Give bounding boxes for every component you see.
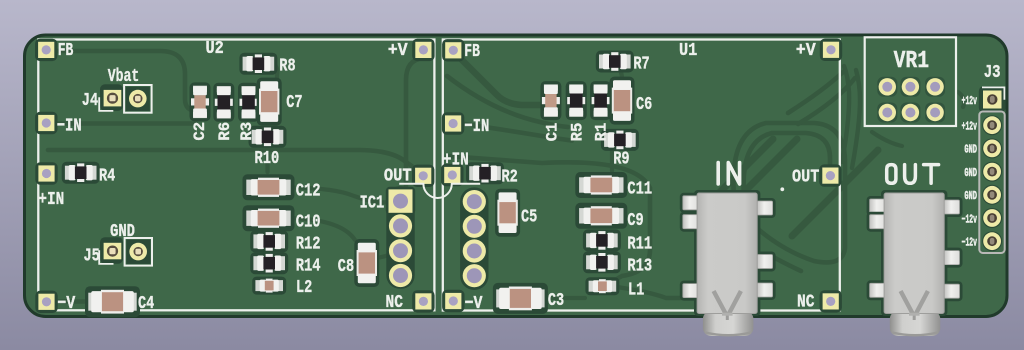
resistor R5 <box>566 81 587 120</box>
svg-text:OUT: OUT <box>792 166 819 188</box>
svg-text:GND: GND <box>964 166 977 180</box>
IC2 pad column U1 <box>460 187 488 290</box>
svg-text:C8: C8 <box>338 255 354 277</box>
svg-text:U2: U2 <box>206 37 224 59</box>
wire FB-U2 to C2 <box>54 51 197 111</box>
pad FB U2 <box>35 39 57 61</box>
svg-text:R6: R6 <box>216 122 234 141</box>
svg-text:C1: C1 <box>543 123 561 142</box>
resistor R11 <box>583 229 621 251</box>
connector J4 <box>100 84 150 111</box>
pad -IN U2 <box>35 112 57 134</box>
svg-text:+V: +V <box>796 39 817 61</box>
wire C10 to C8 <box>292 218 355 240</box>
wire R8 to C7 <box>270 64 277 83</box>
capacitor C1 <box>540 81 561 120</box>
resistor R6 <box>213 83 234 122</box>
wire diagonal up to VR1 A <box>788 72 843 113</box>
capacitor C9 <box>575 203 627 229</box>
wire +V-U2 down to IC1 <box>406 58 423 186</box>
svg-text:VR1: VR1 <box>894 48 930 75</box>
wire left of VR1 B <box>852 70 860 168</box>
J4 pin1 bracket <box>99 97 113 111</box>
pad -IN U1 <box>442 112 464 134</box>
svg-text:−IN: −IN <box>464 115 489 137</box>
svg-text:J5: J5 <box>84 244 100 266</box>
svg-text:−12v: −12v <box>962 212 977 226</box>
svg-text:C4: C4 <box>138 292 154 314</box>
capacitor C11 <box>575 172 627 198</box>
svg-text:GND: GND <box>110 220 135 242</box>
svg-text:Vbat: Vbat <box>108 65 140 87</box>
pad -V U1 <box>442 290 464 312</box>
svg-text:NC: NC <box>386 291 404 313</box>
wire under IN jack from L1 <box>617 287 700 298</box>
svg-text:L2: L2 <box>296 276 312 298</box>
pad NC U1 <box>820 290 842 312</box>
svg-text:+12v: +12v <box>962 120 977 134</box>
svg-text:L1: L1 <box>628 278 644 300</box>
svg-text:U1: U1 <box>679 39 697 61</box>
resistor R3 <box>238 83 259 122</box>
svg-text:R13: R13 <box>627 255 652 277</box>
J5 pad2 silkscreen box <box>125 238 152 266</box>
wire below VR1 <box>872 132 902 146</box>
connector J3 <box>979 86 1006 253</box>
svg-text:C2: C2 <box>191 122 209 141</box>
svg-text:R8: R8 <box>279 54 295 76</box>
wire +IN-U2 long run to OUT pad <box>48 150 423 176</box>
wire VR1 to J3 <box>958 92 964 107</box>
resistor R8 <box>239 53 277 75</box>
inductor L1 <box>585 277 619 295</box>
svg-text:IC1: IC1 <box>360 192 385 214</box>
svg-text:C5: C5 <box>521 206 537 228</box>
wire stub from IN jack right pin <box>775 258 801 271</box>
wire R9 to C11 <box>610 148 614 171</box>
svg-text:R3: R3 <box>238 122 256 141</box>
capacitor C4 <box>85 286 140 317</box>
connector J5 <box>100 237 150 264</box>
wire -IN-U1 <box>462 124 572 141</box>
capacitor C5 <box>495 189 520 237</box>
capacitor C2 <box>190 82 211 121</box>
IC1 pad column U2 <box>386 186 415 289</box>
label IN big <box>718 163 739 184</box>
svg-text:C3: C3 <box>548 289 564 311</box>
resistor R14 <box>250 252 288 274</box>
svg-text:R10: R10 <box>255 147 280 169</box>
capacitor C8 <box>354 239 379 287</box>
svg-text:C12: C12 <box>296 180 321 202</box>
svg-text:R4: R4 <box>99 165 115 187</box>
PCB board body <box>25 35 1008 317</box>
pad +V U2 <box>412 39 434 61</box>
pad OUT U1 <box>819 164 841 186</box>
potentiometer VR1 pads <box>877 77 945 123</box>
label OUT big <box>887 165 939 184</box>
svg-text:J3: J3 <box>984 61 1001 83</box>
silkscreen semicircle jumper mark between modules <box>399 184 480 198</box>
svg-text:OUT: OUT <box>384 165 412 187</box>
resistor R13 <box>583 251 621 273</box>
wire wide diagonal B behind IN <box>716 139 773 196</box>
pad -V U2 <box>35 291 57 313</box>
pad +V U1 <box>820 39 842 61</box>
resistor R7 <box>596 51 634 73</box>
wire -V to C4 <box>50 299 92 303</box>
svg-text:+12v: +12v <box>962 94 977 108</box>
wire wide diagonal A behind IN <box>740 139 797 196</box>
svg-text:+IN: +IN <box>443 149 469 171</box>
wire arc to R5 R1 <box>447 76 568 127</box>
svg-text:−12v: −12v <box>962 236 977 250</box>
svg-text:GND: GND <box>964 143 977 157</box>
pad +IN U2 <box>35 162 57 184</box>
audio jack OUT (J2) <box>867 190 963 336</box>
svg-text:R11: R11 <box>627 233 652 255</box>
wire C8 to IC1 pads <box>376 251 396 258</box>
pad OUT U2 <box>412 165 434 187</box>
capacitor C6 <box>610 77 635 125</box>
resistor R2 <box>466 162 504 184</box>
svg-text:R1: R1 <box>593 123 611 142</box>
wire R10 to C12 <box>265 145 269 172</box>
resistor R9 <box>601 129 639 151</box>
inductor L2 <box>252 277 286 295</box>
wire C3 to L1 <box>545 296 585 300</box>
svg-text:R12: R12 <box>296 233 321 255</box>
svg-text:R14: R14 <box>296 255 321 277</box>
capacitor C12 <box>243 174 295 200</box>
wire -IN-U2 to C2 <box>54 121 196 126</box>
svg-text:−V: −V <box>465 292 484 314</box>
wire R7 to C6 <box>614 67 622 79</box>
svg-text:FB: FB <box>464 40 480 62</box>
module U1 silkscreen outline <box>443 40 840 311</box>
capacitor C7 <box>257 78 282 126</box>
resistor R4 <box>62 162 100 184</box>
wire loop around IN jack outer <box>733 123 845 262</box>
svg-text:R2: R2 <box>502 166 518 188</box>
J4 pad2 silkscreen box <box>124 85 152 113</box>
svg-text:R7: R7 <box>633 52 649 74</box>
svg-text:J4: J4 <box>82 89 98 111</box>
svg-text:R5: R5 <box>568 123 586 142</box>
pad +IN U1 <box>441 164 463 186</box>
pad NC U2 <box>412 290 434 312</box>
silkscreen dot near OUT-U1 <box>780 187 784 191</box>
capacitor C3 <box>493 283 548 314</box>
audio jack IN (J1) <box>680 190 776 336</box>
svg-text:C9: C9 <box>627 209 643 231</box>
svg-text:FB: FB <box>58 39 74 61</box>
capacitor C10 <box>243 205 295 231</box>
resistor R1 <box>590 81 611 120</box>
svg-text:C10: C10 <box>296 210 321 232</box>
J5 pin1 bracket <box>99 250 113 264</box>
svg-text:C11: C11 <box>627 178 652 200</box>
wire OUT pad diagonal to jacks <box>792 150 878 236</box>
wire C12 to IC1 pad <box>292 188 390 203</box>
wire FB-U1 diagonal <box>457 55 552 105</box>
svg-text:C7: C7 <box>286 91 302 113</box>
VR1 silkscreen box <box>865 37 956 126</box>
svg-text:GND: GND <box>964 189 977 203</box>
wire diagonal up to VR1 B <box>798 78 855 124</box>
pad FB U1 <box>442 39 464 61</box>
resistor R12 <box>250 230 288 252</box>
svg-text:−IN: −IN <box>57 114 82 136</box>
resistor R10 <box>249 126 287 148</box>
svg-text:NC: NC <box>797 291 815 313</box>
svg-text:R9: R9 <box>613 147 629 169</box>
svg-text:+IN: +IN <box>38 188 64 210</box>
wire left of VR1 A <box>842 66 849 162</box>
svg-text:C6: C6 <box>636 93 652 115</box>
module U2 silkscreen outline <box>38 40 434 311</box>
wire loop around IN jack inner to OUT pad <box>744 133 830 196</box>
svg-text:−V: −V <box>57 292 76 314</box>
svg-text:+V: +V <box>388 39 409 61</box>
wire +IN-U1 loop around C11 column <box>447 156 650 285</box>
J3 pin1 bracket <box>982 87 1004 99</box>
